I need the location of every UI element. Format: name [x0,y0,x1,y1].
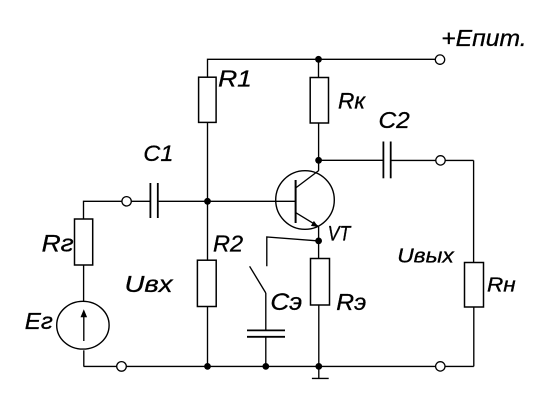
terminal output top [436,156,445,165]
svg-text:Uвх: Uвх [125,272,174,297]
svg-text:Rэ: Rэ [336,290,366,316]
node ground junction [315,363,322,370]
switch blade [250,266,266,293]
resistor R2 [197,260,216,306]
wire collector row [319,159,383,161]
svg-text:Rн: Rн [487,274,516,297]
svg-text:R1: R1 [218,67,252,92]
capacitor C2 [383,142,390,179]
resistor Rэ [311,259,330,306]
node base junction [204,198,211,205]
svg-text:Rг: Rг [42,230,74,257]
ground [312,366,329,378]
terminal input [122,197,131,206]
wire switch to Сэ [265,293,267,330]
svg-text:R2: R2 [213,230,243,256]
svg-text:Сэ: Сэ [270,289,302,316]
node R2 bottom junction [204,363,211,370]
wire Rг to Eг [83,265,85,301]
svg-text:Rк: Rк [338,88,366,113]
resistor R1 [199,77,217,122]
terminal bottom left [117,362,127,372]
svg-text:VT: VT [328,222,353,246]
wire input row left [84,201,150,219]
wire Rэ bottom lead [318,305,320,366]
wire R2 bottom lead [207,307,209,367]
wire input row right to base [159,200,296,202]
wire R1 bottom lead [207,122,209,201]
resistor Rк [310,78,328,124]
wire right branch down [473,160,475,262]
resistor Rн [465,263,484,308]
terminal bottom right [436,362,445,371]
wire bottom rail [84,365,474,367]
wire Rк top lead [318,59,320,77]
terminal +Епит. [435,55,444,64]
svg-text:C1: C1 [143,140,173,165]
svg-text:Uвых: Uвых [397,245,455,267]
svg-text:C2: C2 [379,107,410,133]
wire Сэ bottom lead [265,337,267,366]
wire emitter lead [318,227,320,259]
wire C2 to output [392,159,474,161]
svg-text:Eг: Eг [25,310,53,335]
node collector-supply junction [315,56,322,63]
node emitter junction [315,238,322,245]
wire Rк bottom lead [318,123,320,171]
transistor VT [276,171,335,230]
wire switch branch top [267,237,319,266]
svg-text:+Епит.: +Епит. [441,26,526,52]
node collector junction [315,157,322,164]
wire Rн bottom lead [473,307,475,366]
wire top rail [208,59,436,77]
node Сэ bottom junction [262,363,269,370]
resistor Rг [75,219,93,265]
capacitor C1 [150,183,157,218]
wire R2 top lead [207,201,209,260]
capacitor Сэ [247,330,285,336]
wire Eг bottom lead [83,350,85,366]
source Eг [57,301,109,349]
